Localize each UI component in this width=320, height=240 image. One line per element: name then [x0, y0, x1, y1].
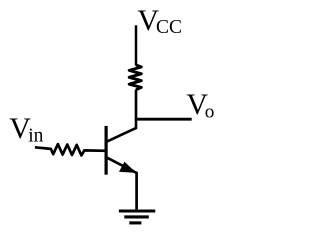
svg-text:in: in: [28, 125, 43, 146]
svg-text:CC: CC: [156, 17, 182, 38]
svg-text:o: o: [205, 102, 215, 123]
